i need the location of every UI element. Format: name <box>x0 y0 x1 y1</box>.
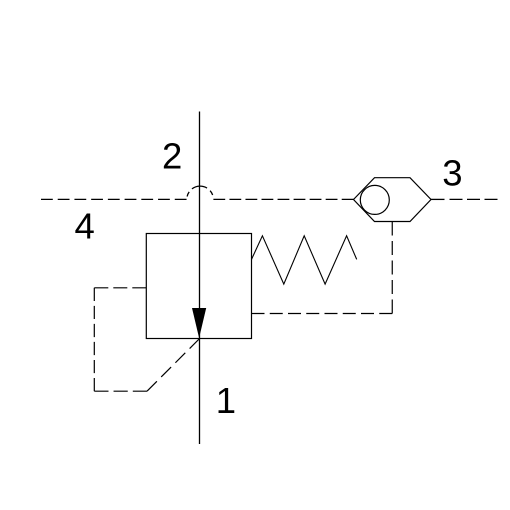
wire: dashed drain line left segment (port 4) <box>41 198 187 200</box>
valve body square <box>146 234 251 339</box>
test coupling ball circle <box>360 185 389 214</box>
svg-text:3: 3 <box>442 153 462 194</box>
pilot line left loop: top segment <box>94 287 146 289</box>
pilot line left loop: diagonal segment to valve outlet <box>147 339 200 392</box>
label port 3 <box>442 153 462 194</box>
valve poppet arrow (filled) <box>192 308 206 338</box>
pilot line left loop: vertical segment <box>93 288 95 391</box>
svg-text:1: 1 <box>216 380 236 421</box>
pilot line left loop: bottom segment <box>94 390 147 392</box>
test coupling hexagon body <box>354 178 432 222</box>
wire: line-crossing hop arc over vertical line <box>187 186 214 199</box>
wire: dashed drain line middle segment to test coupling <box>213 198 353 200</box>
spring zigzag <box>252 236 357 284</box>
label port 1 <box>216 380 236 421</box>
pilot line right: vertical segment from coupling <box>391 222 393 314</box>
wire: main vertical line port 2 to port 1 <box>199 112 201 445</box>
wire: dashed line right segment (port 3) <box>450 198 500 200</box>
label port 2 <box>162 136 182 177</box>
pilot line right: horizontal segment to valve body <box>252 313 393 315</box>
label port 4 <box>75 206 95 247</box>
svg-text:4: 4 <box>75 206 95 247</box>
svg-text:2: 2 <box>162 136 182 177</box>
wire: solid stub from coupling right vertex <box>431 198 445 200</box>
